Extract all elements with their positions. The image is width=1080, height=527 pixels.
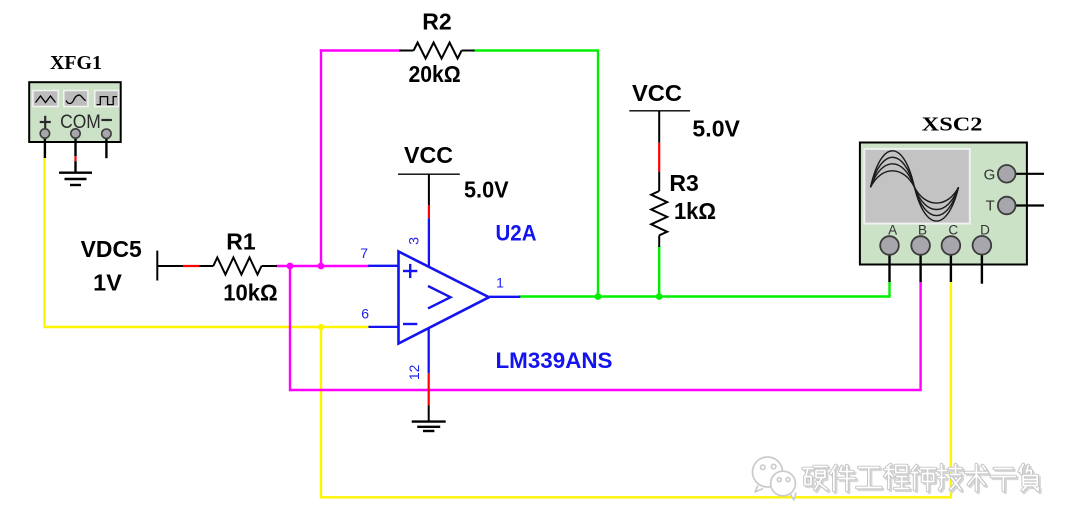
svg-text:A: A [888,223,897,238]
svg-text:1V: 1V [93,270,122,296]
svg-text:G: G [984,167,996,184]
svg-text:VCC: VCC [404,142,453,168]
svg-text:7: 7 [360,245,368,261]
svg-text:COM: COM [60,112,101,133]
svg-text:5.0V: 5.0V [464,176,509,202]
svg-text:XFG1: XFG1 [50,52,102,74]
svg-text:R1: R1 [226,229,256,255]
svg-text:C: C [948,223,958,238]
svg-text:XSC2: XSC2 [922,113,983,135]
svg-text:1: 1 [496,274,504,290]
svg-text:T: T [986,198,995,215]
svg-text:6: 6 [361,306,369,322]
svg-text:VCC: VCC [632,80,682,106]
svg-text:B: B [918,223,927,238]
svg-text:3: 3 [406,237,422,245]
svg-text:VDC5: VDC5 [81,236,142,262]
svg-text:R2: R2 [422,9,451,35]
svg-text:5.0V: 5.0V [692,116,740,142]
svg-text:10kΩ: 10kΩ [223,280,278,306]
svg-text:D: D [980,223,990,238]
svg-text:20kΩ: 20kΩ [408,61,460,87]
svg-text:LM339ANS: LM339ANS [496,348,613,373]
svg-text:R3: R3 [669,170,698,196]
svg-text:12: 12 [406,364,422,380]
svg-text:1kΩ: 1kΩ [674,198,716,224]
svg-text:U2A: U2A [496,221,537,246]
